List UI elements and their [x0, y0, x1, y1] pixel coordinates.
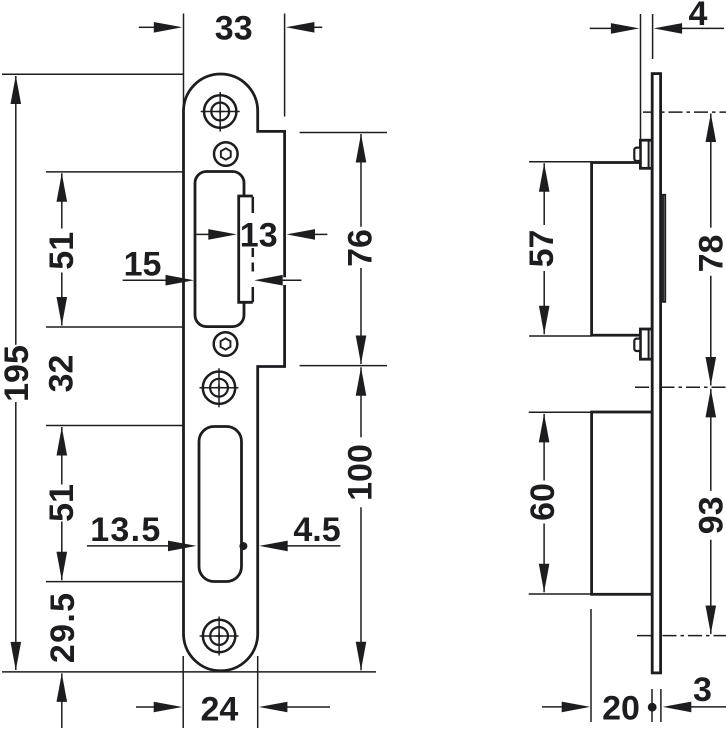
gap in tab edge where tongue dimension line passes — [283, 277, 287, 285]
dimension 13.5 arrow — [168, 541, 197, 552]
dimension 93 line — [710, 389, 712, 634]
extension line 20 left — [590, 609, 592, 722]
side view: screw axis centerline top — [643, 111, 726, 113]
side view: screw axis centerline bottom — [637, 635, 726, 637]
extension line 4 left — [640, 14, 642, 141]
top screw hole outer circle — [204, 95, 236, 127]
svg-text:100: 100 — [342, 444, 380, 501]
latch opening — [195, 172, 244, 327]
extension line latch top — [46, 171, 184, 173]
svg-text:3: 3 — [693, 671, 712, 709]
dimension 4 arrow right — [654, 23, 683, 34]
label 51 upper — [43, 232, 81, 270]
middle screw hole center cross — [216, 384, 223, 391]
dimension 4.5 arrow — [259, 541, 288, 552]
dimension 33 arrow right — [286, 22, 315, 33]
svg-text:195: 195 — [0, 345, 36, 402]
dimension 51 lower arrow down — [57, 552, 68, 581]
extension line bottom (195/29.5/100 dim, plate bottom) — [2, 671, 376, 673]
svg-text:57: 57 — [523, 230, 561, 268]
dimension 57 arrow up — [539, 163, 550, 192]
top screw hole crosshair — [201, 92, 240, 132]
svg-text:29.5: 29.5 — [44, 592, 82, 663]
extension line 24 left — [182, 656, 184, 728]
dimension 4 line right — [682, 27, 725, 29]
tongue right dimension arrow — [254, 275, 283, 286]
dimension 15 arrow at opening — [166, 275, 195, 286]
dimension 78 arrow up — [706, 114, 717, 143]
dimension 57 line — [543, 163, 545, 334]
bottom screw hole outer circle — [203, 620, 235, 652]
front view: strike plate outline — [184, 74, 285, 671]
dimension 20 arrow — [562, 702, 591, 713]
svg-text:60: 60 — [524, 483, 562, 521]
tongue right dimension line — [282, 279, 301, 281]
dimension 13 line left — [196, 233, 210, 235]
dimension 3 line — [691, 706, 726, 708]
dimension 195 arrow down — [11, 642, 22, 671]
dimension 60 arrow down — [539, 564, 550, 593]
extension line 24 right — [257, 656, 259, 728]
extension line deadbolt bottom — [46, 581, 184, 583]
svg-text:24: 24 — [200, 691, 238, 729]
dimension 57 arrow down — [539, 306, 550, 335]
label 100 — [342, 444, 380, 501]
bottom screw hole crosshair — [200, 617, 239, 656]
dimension 4.5 line — [287, 545, 340, 547]
svg-text:13.5: 13.5 — [90, 511, 161, 549]
side view: middle screw cap — [634, 339, 640, 351]
dimension 76 arrow up — [356, 134, 367, 163]
svg-text:13: 13 — [240, 216, 278, 254]
dimension 4 arrow left — [611, 23, 640, 34]
dimension 60 arrow up — [539, 414, 550, 443]
dimension 51 upper line — [61, 173, 63, 325]
svg-text:51: 51 — [43, 484, 81, 522]
dimension 4 line left — [590, 27, 612, 29]
dimension 24 line right — [287, 706, 330, 708]
dimension 195 line — [15, 76, 17, 670]
dimension 13 arrow at plate edge — [287, 229, 316, 240]
extension line deadbolt top — [46, 425, 184, 427]
top screw hole inner circle — [211, 103, 229, 121]
tongue right edge (broken/dashed) — [252, 197, 255, 302]
side view: latch lip bar — [663, 195, 665, 302]
dimension 51 upper arrow down — [57, 297, 68, 326]
dimension 20 line — [542, 706, 562, 708]
extension line latch bottom — [46, 326, 184, 328]
extension line 60 top — [529, 411, 592, 413]
extension line top (195 dim, plate top) — [2, 73, 184, 75]
dimension 13 arrow at tongue — [208, 229, 237, 240]
label 78 — [693, 235, 726, 273]
label 195 — [0, 345, 36, 402]
dimension 195 arrow up — [11, 76, 22, 105]
svg-text:15: 15 — [124, 246, 162, 284]
label 32 — [43, 355, 81, 393]
extension line 33 left — [183, 14, 185, 111]
upper hex screw circle — [214, 142, 238, 166]
svg-text:78: 78 — [693, 235, 726, 273]
dimension 33 arrow left — [154, 22, 183, 33]
extension line 57 top — [529, 161, 592, 163]
label 51 lower — [43, 484, 81, 522]
upper hex socket — [221, 148, 231, 159]
dimension 78 line — [710, 114, 712, 386]
dimension 29.5 tail line — [61, 673, 63, 728]
extension line 4 right — [652, 14, 654, 59]
dimension 33 line left — [139, 26, 155, 28]
top screw hole center cross — [217, 108, 224, 115]
dimension 51 upper arrow up — [57, 173, 68, 202]
deadbolt edge reference dot — [239, 542, 247, 550]
dimension 76 arrow down — [356, 336, 367, 365]
dimension 24 arrow left — [154, 702, 183, 713]
side view: lower lock box — [592, 412, 653, 594]
dimension 60 line — [543, 414, 545, 592]
side view: upper screw cap — [634, 148, 640, 161]
label 60 — [524, 483, 562, 521]
dimension 93 arrow down — [706, 606, 717, 635]
dimension 100 line — [360, 367, 362, 670]
extension line 57 bottom — [529, 335, 592, 337]
latch keeper tongue — [239, 196, 253, 302]
dimension 15 line — [123, 279, 167, 281]
extension line tab top right — [300, 132, 387, 134]
bottom screw hole center cross — [216, 633, 223, 640]
svg-text:32: 32 — [43, 355, 81, 393]
dimension 51 lower arrow up — [57, 427, 68, 456]
dimension 33 line right — [314, 26, 323, 28]
dimension 3 arrow — [663, 702, 692, 713]
deadbolt opening — [199, 427, 242, 582]
label 57 — [523, 230, 561, 268]
dimension 78 arrow down — [706, 357, 717, 386]
lower hex socket — [221, 338, 231, 349]
svg-text:33: 33 — [215, 10, 253, 48]
dimension 24 line left — [136, 706, 154, 708]
dimension 20/3 reference dot — [648, 703, 657, 712]
side view: upper screw head — [640, 140, 652, 168]
lower hex screw circle — [214, 332, 238, 356]
side view: upper lock box — [592, 163, 653, 336]
extension line 60 bottom — [529, 593, 592, 595]
extension line 3 / plate right face — [660, 689, 662, 722]
label 93 — [693, 496, 726, 534]
bottom screw hole inner circle — [210, 627, 228, 645]
dimension 29.5 outside arrow — [57, 673, 68, 702]
middle screw hole crosshair — [200, 368, 239, 407]
dimension 100 arrow down — [356, 642, 367, 671]
side view: strike plate bar — [652, 74, 660, 673]
dimension 100 arrow up — [356, 367, 367, 396]
extension line 33 right — [284, 14, 286, 117]
dimension 13 line right — [314, 233, 327, 235]
dimension 93 arrow up — [706, 389, 717, 418]
side view: middle screw head — [640, 329, 652, 359]
svg-text:93: 93 — [693, 496, 726, 534]
middle screw hole outer circle — [203, 372, 235, 404]
extension line 20 right / plate left face — [651, 689, 653, 722]
dimension 51 lower line — [61, 427, 63, 580]
svg-text:20: 20 — [602, 690, 640, 728]
dimension 76 line — [360, 134, 362, 364]
label 29.5 — [44, 592, 82, 663]
svg-text:4.5: 4.5 — [293, 511, 340, 549]
svg-text:76: 76 — [342, 229, 380, 267]
svg-text:51: 51 — [43, 232, 81, 270]
dimension 24 arrow right — [259, 702, 288, 713]
extension line tab bottom right — [300, 365, 387, 367]
svg-text:4: 4 — [689, 0, 708, 33]
middle screw hole inner circle — [210, 379, 228, 397]
side view: screw axis centerline middle — [635, 386, 726, 388]
dimension 13.5 line — [87, 545, 169, 547]
label 76 — [342, 229, 380, 267]
